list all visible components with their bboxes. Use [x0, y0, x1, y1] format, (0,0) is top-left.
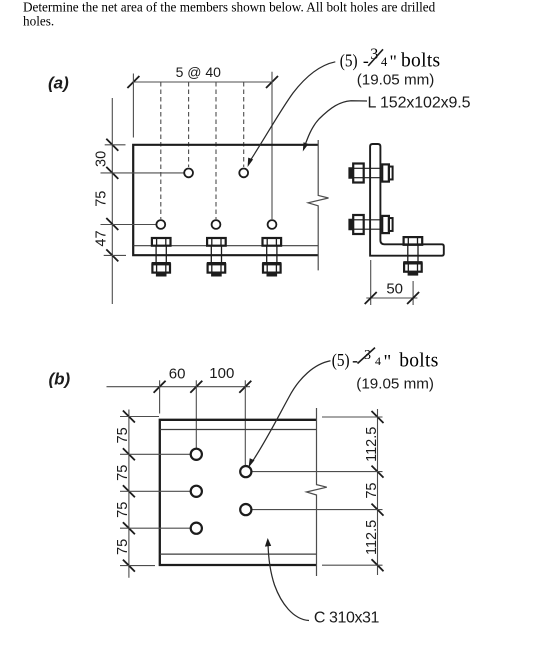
angle bolt V1 — [403, 237, 422, 276]
left dimension line (b) — [123, 410, 135, 578]
svg-text:75: 75 — [115, 502, 131, 518]
channel bottom flange inner line — [160, 553, 317, 555]
bolt hole A5 — [268, 220, 277, 229]
leader to hole A2 — [250, 62, 335, 161]
svg-text:L 152x102x9.5: L 152x102x9.5 — [368, 95, 471, 112]
extension line right of 5@40 down to hole — [271, 72, 273, 219]
svg-text:(a): (a) — [48, 74, 69, 93]
svg-text:75: 75 — [115, 465, 131, 481]
hole row 1 reference line (b) — [120, 453, 191, 455]
svg-text:bolts: bolts — [399, 350, 438, 371]
bolt hole A3 — [156, 220, 165, 229]
bolt hole B2 — [191, 486, 202, 497]
svg-text:30: 30 — [94, 151, 110, 167]
svg-text:100: 100 — [209, 365, 234, 382]
dimension line 5 @ 40 — [127, 76, 278, 88]
angle bolt H1 — [349, 164, 393, 183]
svg-text:holes.: holes. — [23, 14, 54, 29]
svg-text:(19.05 mm): (19.05 mm) — [357, 71, 435, 88]
svg-text:Determine the net area of the: Determine the net area of the members sh… — [23, 0, 436, 15]
right hole row 2 reference line (b) — [251, 509, 383, 511]
plate (a) outline (top, left, bottom edges) — [133, 145, 318, 255]
gauge line 4 (dashed) — [243, 82, 245, 167]
hole row 1 reference line (a) — [101, 172, 184, 174]
bolt B3 — [262, 238, 281, 277]
left dimension line (a) — [106, 98, 118, 304]
bolt hole A1 — [184, 169, 193, 178]
bottom reference line (a) — [104, 254, 126, 256]
angle leg top edge behind plate — [133, 245, 318, 247]
bolt hole A4 — [212, 220, 221, 229]
svg-text:75: 75 — [115, 427, 131, 443]
hole row 2 reference line (a) — [101, 224, 156, 226]
svg-text:75: 75 — [94, 191, 110, 207]
top-right reference line (b) — [322, 416, 383, 418]
svg-text:": " — [390, 52, 397, 72]
bolt hole B3 — [191, 523, 202, 534]
svg-text:4: 4 — [375, 354, 381, 368]
extension line left of 5@40 — [132, 74, 134, 138]
channel (b) break line (right edge with zigzag) — [306, 408, 326, 576]
svg-text:(5): (5) — [332, 350, 350, 370]
top-left reference line (b) — [120, 416, 159, 418]
hole row 2 reference line (b) — [120, 490, 191, 492]
leader to channel web — [268, 543, 309, 621]
svg-text:(5): (5) — [340, 51, 358, 71]
svg-text:3: 3 — [364, 348, 371, 363]
angle bolt H2 — [349, 215, 393, 234]
bolt hole B5 — [240, 504, 251, 515]
svg-text:(b): (b) — [49, 370, 71, 389]
svg-text:60: 60 — [169, 365, 186, 382]
svg-text:5 @ 40: 5 @ 40 — [176, 64, 222, 80]
top reference line (a) — [105, 144, 126, 146]
bottom-right reference line (b) — [322, 564, 383, 566]
leader to hole B4 — [252, 361, 331, 462]
svg-text:47: 47 — [94, 230, 110, 246]
bolt hole B1 — [191, 449, 202, 460]
bolt hole A2 — [239, 169, 248, 178]
svg-text:C 310x31: C 310x31 — [314, 610, 380, 627]
extension line to hole column 1 (b) — [195, 380, 197, 449]
hole row 3 reference line (b) — [120, 527, 191, 529]
fraction slash (b) — [358, 348, 376, 364]
extension line at plate edge (b) — [159, 380, 161, 413]
svg-text:75: 75 — [115, 539, 131, 555]
svg-text:112.5: 112.5 — [364, 427, 380, 462]
svg-text:75: 75 — [364, 483, 380, 499]
gauge line 2 (dashed) — [188, 82, 190, 167]
plate (a) break line (right edge with zigzag) — [308, 140, 328, 270]
bolt B2 — [207, 238, 226, 277]
svg-text:": " — [384, 352, 392, 373]
dimension line 60 / 100 — [107, 381, 252, 393]
svg-text:-: - — [352, 350, 358, 370]
fraction slash (a) — [368, 49, 383, 66]
svg-text:112.5: 112.5 — [364, 520, 380, 555]
svg-text:-: - — [363, 51, 369, 71]
right hole row 1 reference line (b) — [251, 471, 383, 473]
dimension 50 — [365, 260, 419, 305]
gauge line 1 (dashed) — [160, 82, 162, 219]
svg-text:3: 3 — [370, 46, 378, 63]
svg-text:(19.05 mm): (19.05 mm) — [356, 376, 434, 393]
bolt hole B4 — [240, 466, 251, 477]
svg-text:4: 4 — [381, 55, 388, 69]
svg-text:bolts: bolts — [401, 50, 440, 71]
right dimension line (b) — [372, 409, 384, 575]
channel (b) outline (top, left, bottom edges) — [160, 420, 317, 565]
channel top flange inner line — [160, 429, 317, 431]
gauge line 3 (dashed) — [215, 82, 217, 219]
bolt B1 — [152, 238, 171, 277]
extension line to hole column 2 (b) — [244, 380, 246, 466]
leader to plate top edge — [304, 101, 367, 149]
svg-text:50: 50 — [386, 280, 403, 297]
angle section detail outline — [370, 144, 444, 256]
bottom-left reference line (b) — [120, 565, 155, 567]
